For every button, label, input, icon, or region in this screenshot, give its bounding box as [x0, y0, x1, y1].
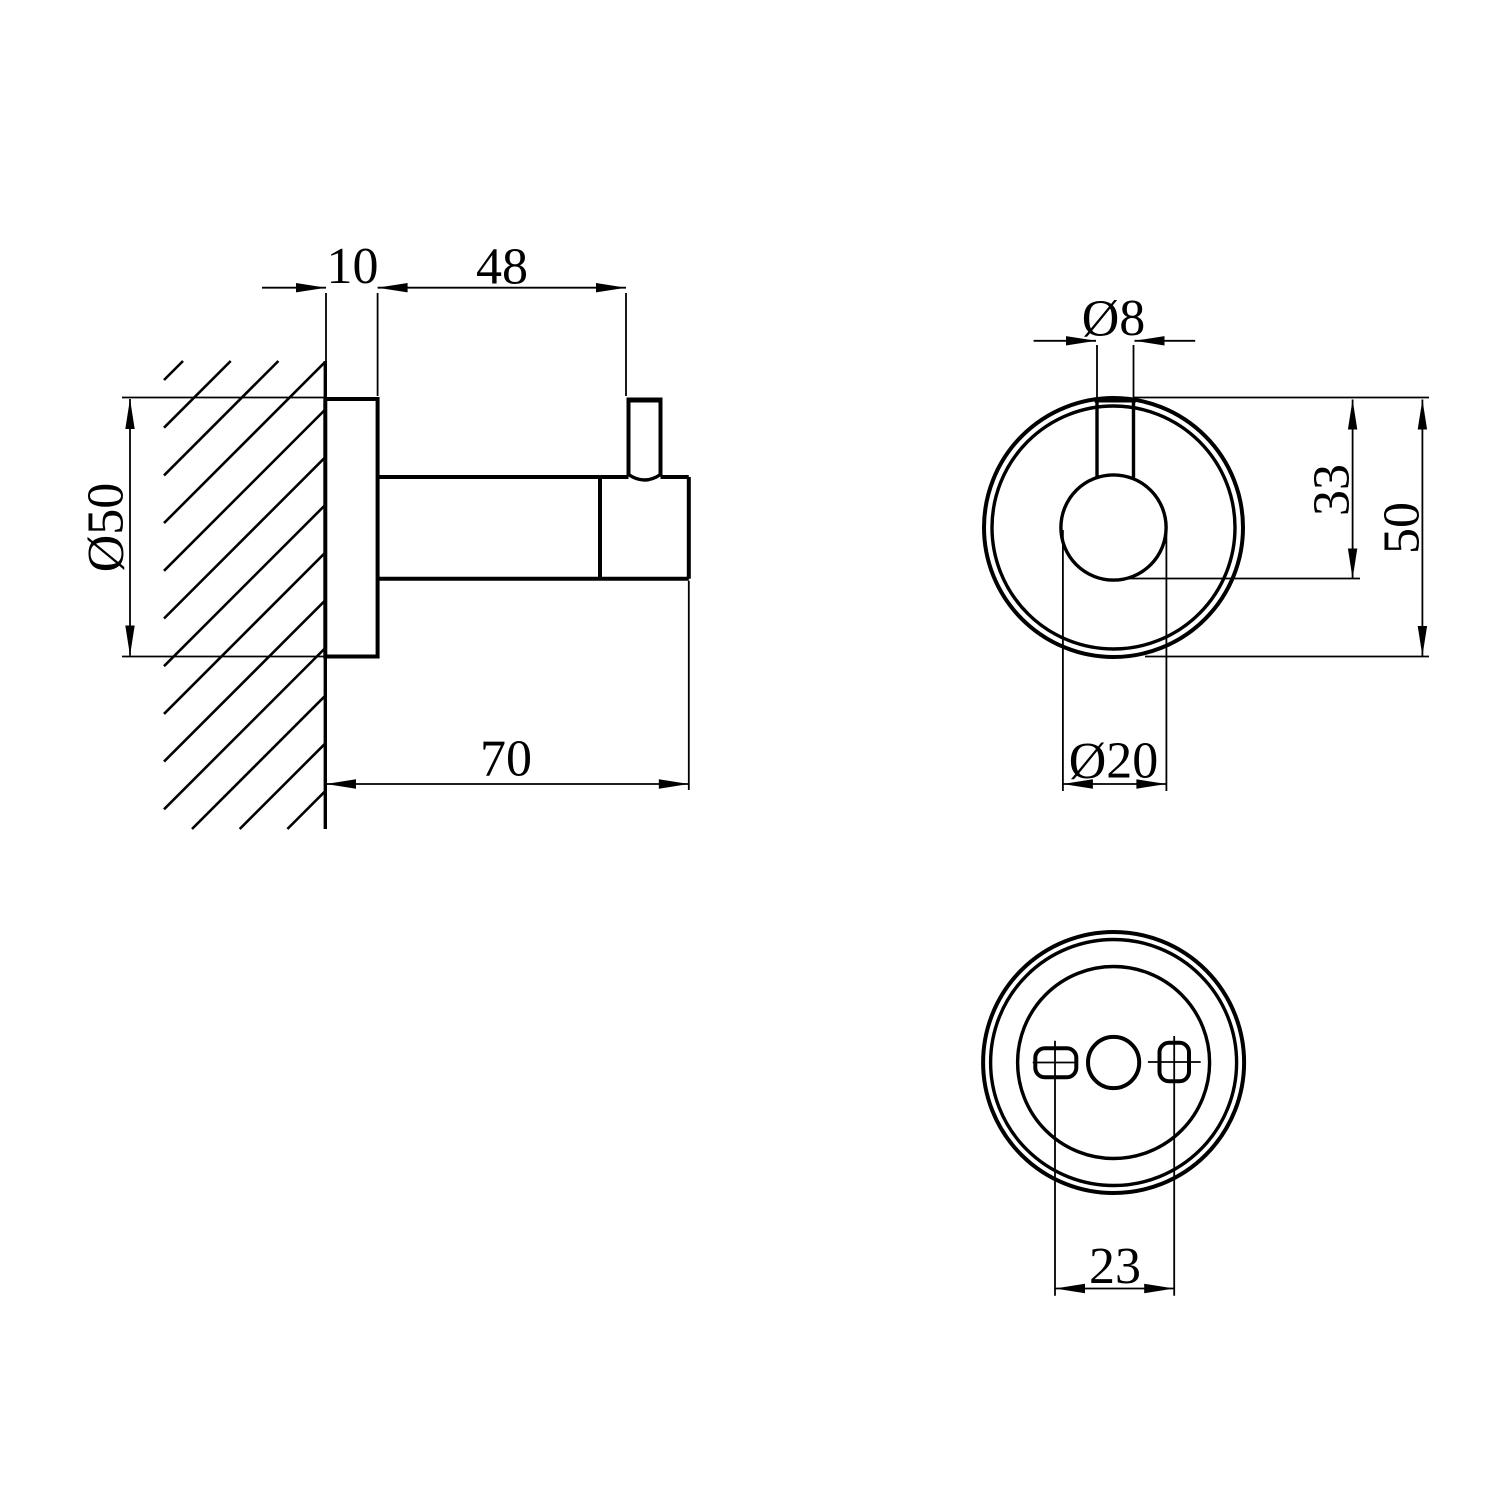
- dimension 33 lower extension line: [1127, 578, 1360, 580]
- svg-text:70: 70: [480, 731, 532, 788]
- wall line: [324, 361, 327, 829]
- rim circle (back view): [991, 940, 1237, 1186]
- svg-text:33: 33: [1304, 464, 1361, 516]
- pin-arm fillet arc: [629, 475, 661, 481]
- dimension D8 line and arrows: [1034, 340, 1096, 342]
- right mounting slot: [1160, 1043, 1190, 1082]
- center hole (back view): [1088, 1037, 1139, 1088]
- dimension D50 extension lines: [122, 397, 325, 399]
- outer circle (front view): [984, 398, 1243, 657]
- dimension 48 line and arrows: [378, 287, 626, 289]
- hook pin (front view): [1095, 400, 1137, 478]
- right slot vertical centerline / extension: [1173, 1036, 1175, 1296]
- svg-text:Ø8: Ø8: [1082, 290, 1146, 347]
- dimension 33 line and arrows: [1352, 400, 1354, 579]
- svg-text:48: 48: [476, 239, 528, 296]
- recess circle (back view): [1018, 967, 1210, 1159]
- dimension D50 line and arrows: [129, 399, 131, 656]
- hook pin (side view): [627, 400, 663, 477]
- svg-text:23: 23: [1089, 1238, 1141, 1295]
- top extension line (front view): [1134, 397, 1430, 399]
- svg-text:Ø20: Ø20: [1069, 733, 1159, 790]
- svg-text:50: 50: [1374, 502, 1431, 554]
- svg-text:10: 10: [327, 238, 379, 295]
- hub circle D20 (front view): [1061, 475, 1166, 580]
- outer circle (back view): [983, 932, 1244, 1193]
- dimension 70 line and arrows: [326, 783, 689, 785]
- left slot horizontal centerline: [1033, 1062, 1078, 1064]
- wall hatching: [164, 361, 325, 829]
- left mounting slot: [1035, 1048, 1076, 1077]
- dimension 50 line and arrows: [1421, 400, 1423, 657]
- dimension 48 extension line: [625, 293, 627, 396]
- dimension D8 extension lines: [1096, 345, 1098, 399]
- left slot vertical centerline / extension: [1054, 1041, 1056, 1296]
- mounting plate (side view): [325, 399, 377, 657]
- dimension D20 extension lines: [1062, 530, 1064, 791]
- right slot horizontal centerline: [1148, 1061, 1201, 1063]
- inner rim circle (front view): [992, 406, 1235, 649]
- dimension 10 line and arrow: [262, 287, 326, 289]
- dimension 10 extension lines: [325, 293, 327, 396]
- dimension D20 line and arrows: [1063, 783, 1167, 785]
- dimension 70 extension line: [688, 581, 690, 790]
- dimension 50 lower extension line: [1145, 656, 1429, 658]
- svg-text:Ø50: Ø50: [78, 483, 135, 573]
- arm cylinder (side view): [378, 477, 689, 579]
- dimension 23 line and arrows: [1055, 1288, 1174, 1290]
